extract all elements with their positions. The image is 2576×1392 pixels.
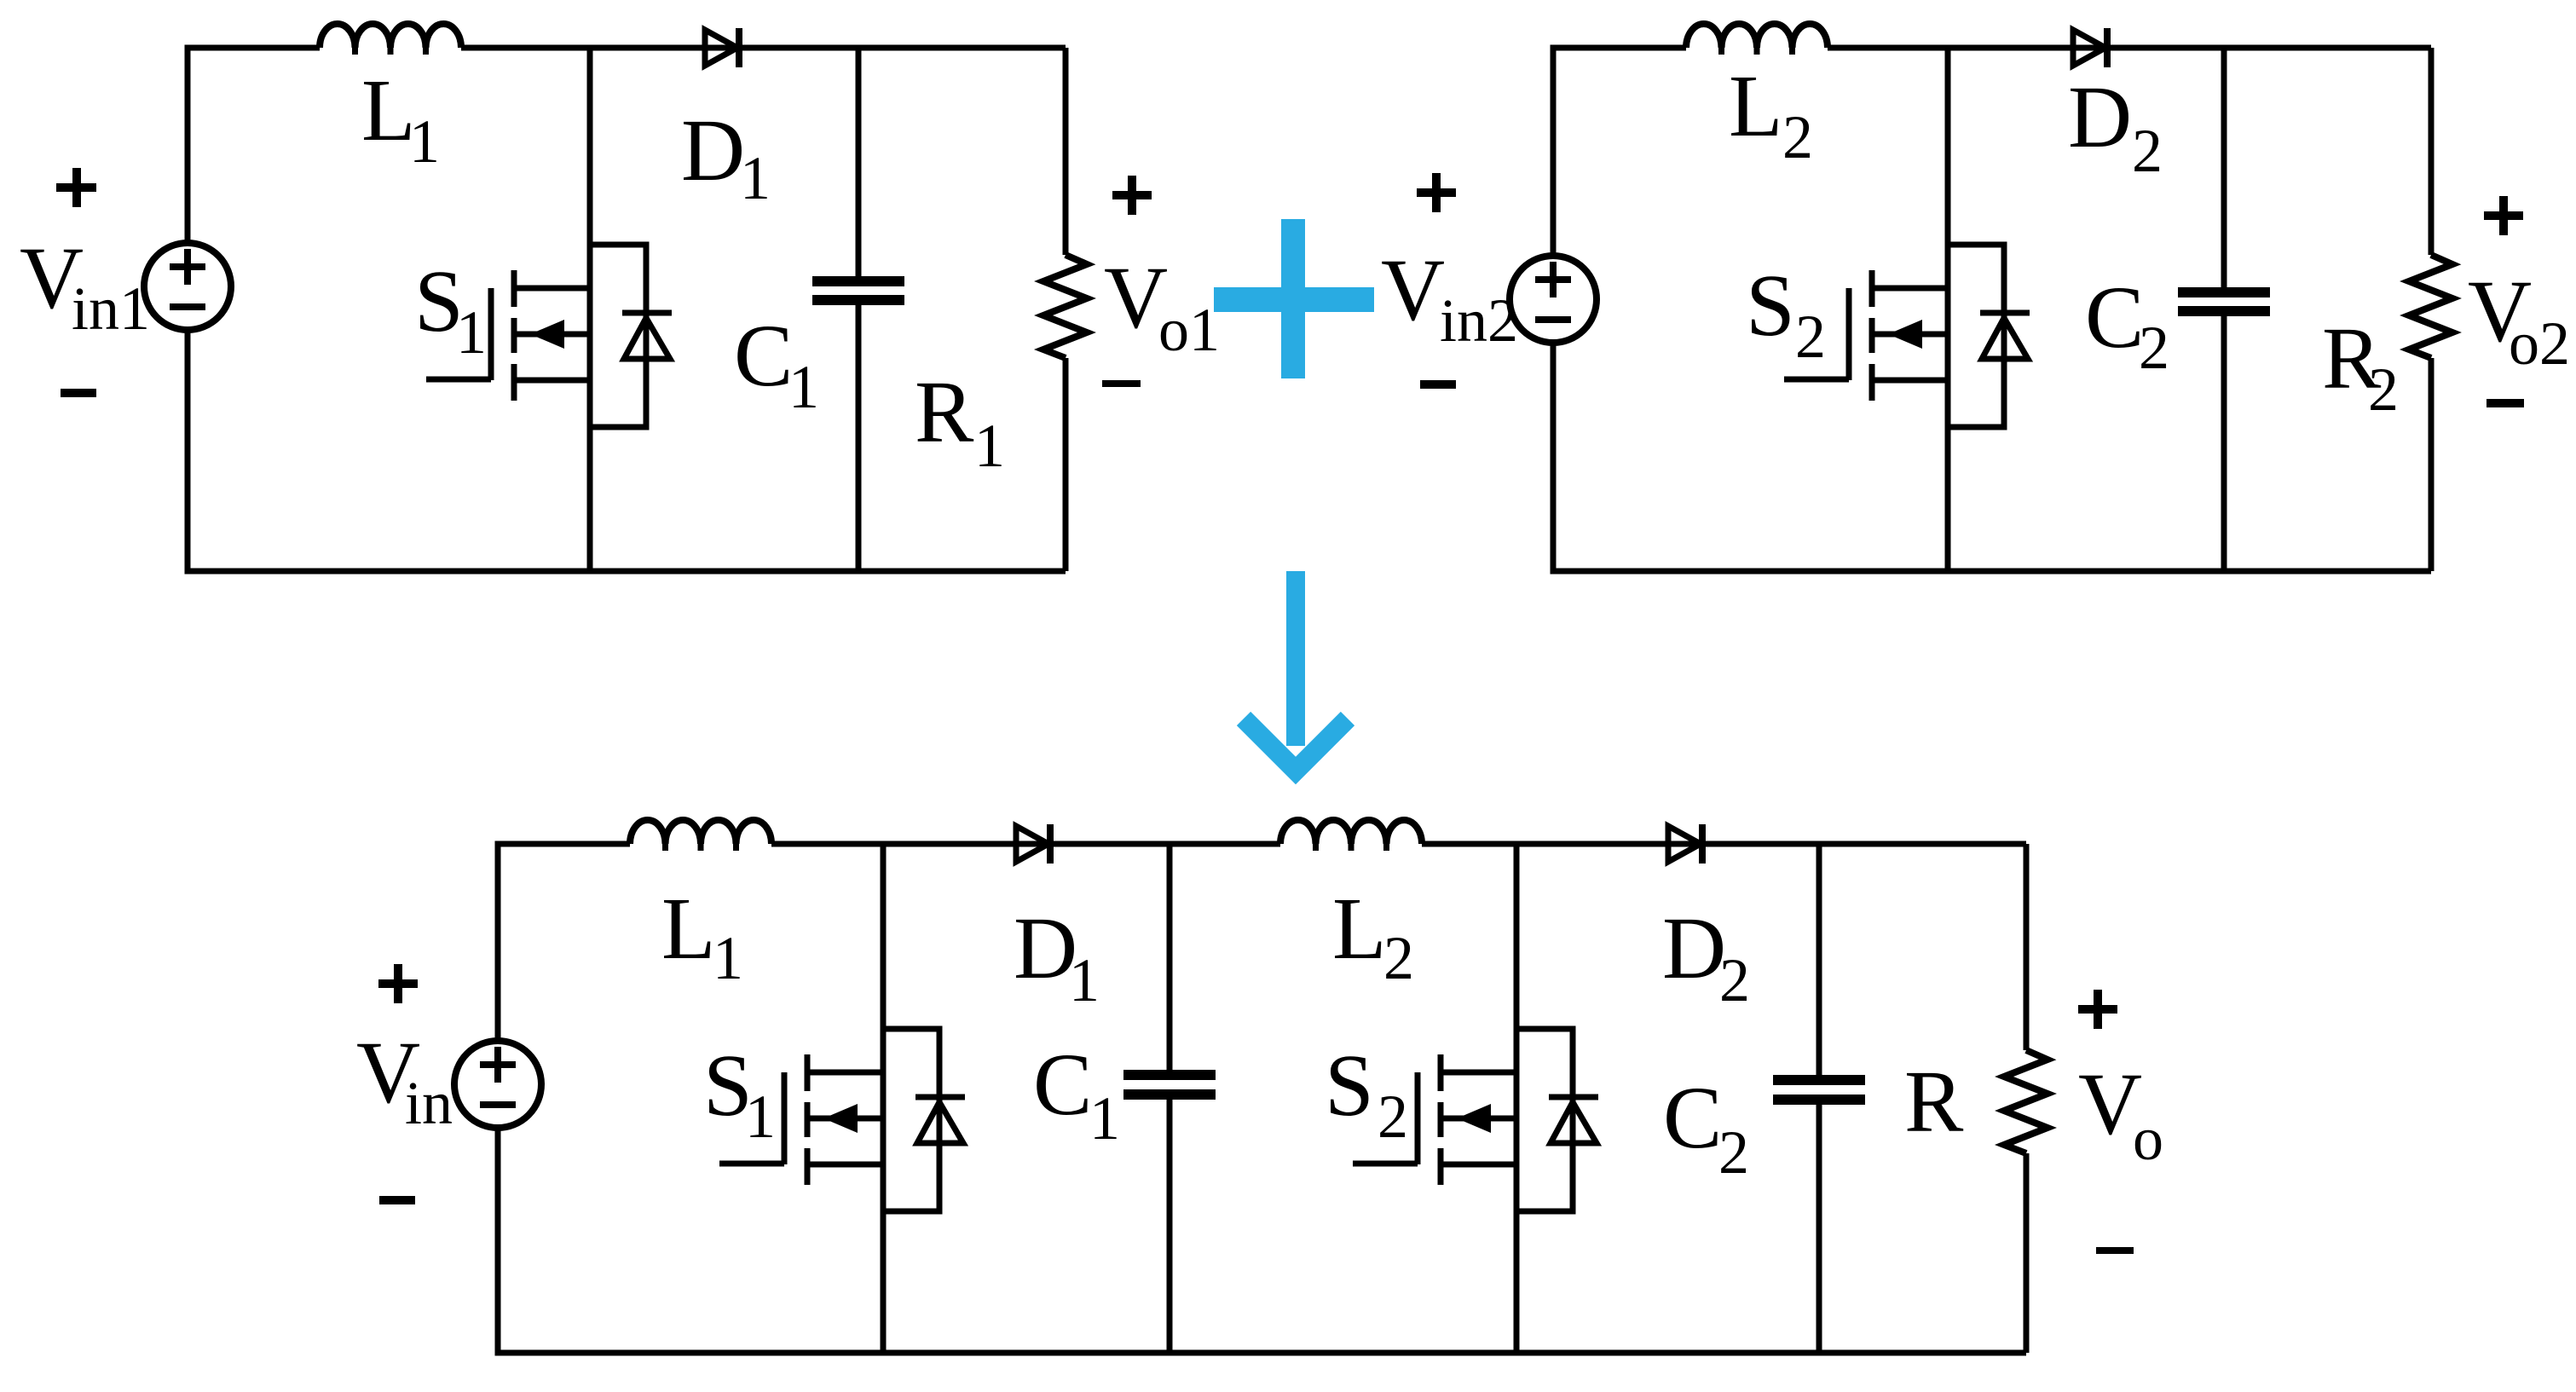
svg-text:in2: in2 bbox=[1440, 286, 1518, 355]
capacitor C1 branch circuit3 bbox=[1123, 844, 1216, 1353]
svg-text:1: 1 bbox=[456, 298, 487, 367]
svg-text:2: 2 bbox=[2139, 314, 2169, 382]
inductor L1 bottom bbox=[630, 820, 771, 851]
label C2 bottom bbox=[1663, 1069, 1749, 1187]
svg-text:1: 1 bbox=[713, 924, 743, 992]
svg-text:2: 2 bbox=[1383, 924, 1414, 992]
label R2 bbox=[2322, 309, 2399, 424]
blue arrow down bbox=[1244, 571, 1348, 771]
svg-text:in: in bbox=[405, 1069, 453, 1137]
label Vo2 bbox=[2468, 196, 2570, 403]
capacitor C2 branch circuit3 bbox=[1773, 844, 1865, 1353]
label Vin2 bbox=[1381, 173, 1518, 384]
diode D2 bottom bbox=[1668, 824, 1702, 864]
svg-text:1: 1 bbox=[1069, 946, 1100, 1014]
blue plus sign bbox=[1214, 219, 1374, 378]
svg-text:1: 1 bbox=[745, 1083, 776, 1151]
resistor R2 with right wire circuit2 bbox=[2409, 48, 2452, 571]
svg-text:2: 2 bbox=[1795, 303, 1826, 371]
svg-text:S: S bbox=[1325, 1037, 1374, 1135]
wire top circuit1 from L1 to top-right corner bbox=[461, 45, 1066, 51]
label Vin1 bbox=[20, 168, 150, 393]
wire S2 branch circuit3 bbox=[1514, 844, 1520, 1353]
voltage source Vin1 bbox=[144, 243, 231, 330]
label S2 bottom bbox=[1325, 1037, 1408, 1151]
svg-text:C: C bbox=[734, 307, 793, 405]
wire top-left loop circuit1 bbox=[188, 48, 1066, 571]
voltage source Vin bbox=[454, 1041, 541, 1128]
wire bottom-left loop circuit3 bbox=[498, 844, 2026, 1353]
label Vin bottom bbox=[356, 964, 453, 1200]
label L2 bbox=[1729, 57, 1813, 171]
svg-text:1: 1 bbox=[1089, 1084, 1120, 1152]
label S2 bbox=[1746, 257, 1826, 371]
svg-text:R: R bbox=[915, 363, 974, 461]
svg-text:o1: o1 bbox=[1158, 296, 1220, 364]
svg-text:C: C bbox=[1033, 1036, 1092, 1134]
wire top circuit2 from L2 to top-right corner bbox=[1828, 45, 2431, 51]
svg-text:V: V bbox=[1381, 241, 1445, 339]
diode D2 bbox=[2073, 28, 2107, 67]
svg-text:S: S bbox=[1746, 257, 1795, 355]
transistor S1 (MOSFET with body diode) bbox=[426, 245, 672, 427]
label L2 bottom bbox=[1332, 880, 1414, 992]
svg-text:D: D bbox=[681, 101, 745, 199]
label L1 bottom bbox=[661, 880, 743, 992]
svg-text:D: D bbox=[1014, 899, 1077, 997]
label C1 bbox=[734, 307, 819, 421]
transistor S1 bottom (MOSFET with body diode) bbox=[719, 1029, 965, 1211]
transistor S2 (MOSFET with body diode) bbox=[1784, 245, 2030, 427]
label C2 bbox=[2085, 269, 2169, 382]
svg-text:2: 2 bbox=[2368, 355, 2399, 424]
wire S1 branch circuit1 bbox=[587, 48, 593, 571]
svg-text:2: 2 bbox=[2132, 117, 2163, 185]
svg-text:2: 2 bbox=[1718, 1118, 1749, 1187]
label L1 bbox=[361, 61, 440, 176]
wire S1 branch circuit3 bbox=[881, 844, 887, 1353]
label C1 bottom bbox=[1033, 1036, 1120, 1152]
svg-text:2: 2 bbox=[1378, 1083, 1408, 1151]
diode D1 bbox=[705, 28, 739, 67]
label D1 bottom bbox=[1014, 899, 1100, 1014]
label D2 bbox=[2068, 68, 2163, 185]
svg-text:2: 2 bbox=[1719, 946, 1750, 1014]
svg-text:in1: in1 bbox=[72, 274, 150, 343]
svg-text:L: L bbox=[1729, 57, 1783, 155]
svg-text:D: D bbox=[2068, 68, 2132, 166]
resistor R with right wire circuit3 bbox=[2004, 844, 2048, 1353]
svg-text:1: 1 bbox=[974, 412, 1005, 480]
svg-text:1: 1 bbox=[788, 353, 819, 421]
label R1 bbox=[915, 363, 1005, 480]
svg-text:L: L bbox=[361, 61, 416, 159]
label S1 bottom bbox=[703, 1037, 776, 1151]
svg-text:o: o bbox=[2133, 1105, 2163, 1173]
wire top circuit3 right bbox=[1422, 841, 2026, 847]
capacitor C1 branch circuit1 bbox=[812, 48, 904, 571]
svg-text:L: L bbox=[661, 880, 716, 978]
inductor L2 bottom bbox=[1280, 820, 1422, 851]
label R bottom bbox=[1904, 1053, 1964, 1151]
capacitor C2 branch circuit2 bbox=[2178, 48, 2270, 571]
svg-text:1: 1 bbox=[740, 144, 771, 212]
svg-text:C: C bbox=[1663, 1069, 1722, 1167]
label Vo1 bbox=[1102, 176, 1220, 384]
svg-text:L: L bbox=[1332, 880, 1387, 978]
wire top circuit3 middle bbox=[771, 841, 1280, 847]
svg-text:1: 1 bbox=[409, 107, 440, 176]
label Vo bottom bbox=[2078, 990, 2163, 1250]
wire S2 branch circuit2 bbox=[1945, 48, 1951, 571]
label D1 bbox=[681, 101, 771, 212]
inductor L1 bbox=[320, 24, 461, 55]
transistor S2 bottom (MOSFET with body diode) bbox=[1353, 1029, 1598, 1211]
svg-text:D: D bbox=[1662, 899, 1726, 997]
voltage source Vin2 bbox=[1510, 256, 1597, 343]
svg-text:C: C bbox=[2085, 269, 2144, 367]
resistor R1 with right wire circuit1 bbox=[1043, 48, 1087, 571]
svg-text:2: 2 bbox=[1782, 103, 1813, 171]
label S1 bbox=[414, 252, 487, 367]
inductor L2 bbox=[1686, 24, 1828, 55]
diode D1 bottom bbox=[1016, 824, 1050, 864]
svg-text:o2: o2 bbox=[2509, 309, 2570, 378]
label D2 bottom bbox=[1662, 899, 1750, 1014]
svg-text:R: R bbox=[1904, 1053, 1964, 1151]
wire top-left loop circuit2 bbox=[1553, 48, 2431, 571]
